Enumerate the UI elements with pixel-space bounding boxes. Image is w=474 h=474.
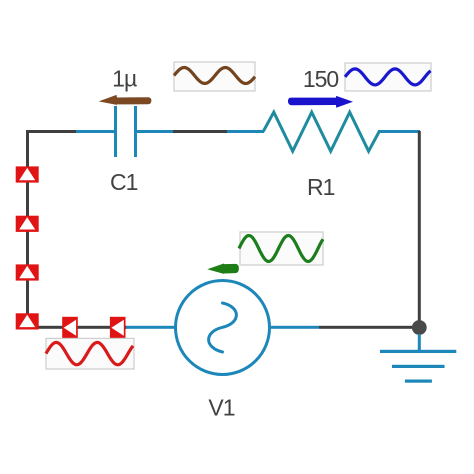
ground symbol	[380, 334, 456, 383]
waveform box blue (R1 current)	[345, 63, 431, 91]
svg-text:1µ: 1µ	[112, 65, 137, 91]
wire blue resistor right lead	[378, 130, 420, 133]
wire bottom-right dark to ground node	[319, 326, 420, 329]
svg-text:R1: R1	[307, 174, 335, 200]
waveform box brown (C1 current)	[174, 62, 255, 91]
svg-text:150: 150	[303, 66, 339, 92]
wire blue V1 left lead	[126, 326, 175, 329]
diode D3	[16, 264, 39, 280]
svg-text:C1: C1	[110, 169, 138, 195]
waveform box green (V1 current)	[239, 232, 323, 265]
ground node junction dot	[412, 320, 427, 335]
diode D1	[16, 166, 39, 182]
resistor R1 zigzag	[263, 112, 379, 151]
voltage source V1 circle	[176, 281, 270, 375]
diode D5	[62, 317, 78, 339]
wire left vertical dark	[26, 130, 29, 328]
waveform box red (diode current)	[46, 338, 134, 369]
wire right vertical dark	[418, 131, 421, 328]
wire blue capacitor right lead	[134, 130, 173, 133]
diode D2	[16, 216, 39, 232]
svg-text:V1: V1	[208, 394, 234, 420]
current arrow brown (left)	[99, 95, 152, 105]
wire blue V1 right lead	[271, 326, 319, 329]
diode D4	[16, 313, 39, 329]
diode D6	[110, 317, 126, 339]
wire bottom dark under diodes	[26, 326, 127, 329]
wire top-left dark segment	[28, 130, 77, 133]
wire dark segment between C1 and R1	[173, 130, 227, 133]
current arrow green (left)	[207, 264, 239, 274]
current arrow blue (right)	[288, 96, 353, 108]
wire blue resistor left lead	[227, 130, 264, 133]
wire blue capacitor left lead	[76, 130, 116, 133]
capacitor C1 plates	[114, 106, 137, 157]
